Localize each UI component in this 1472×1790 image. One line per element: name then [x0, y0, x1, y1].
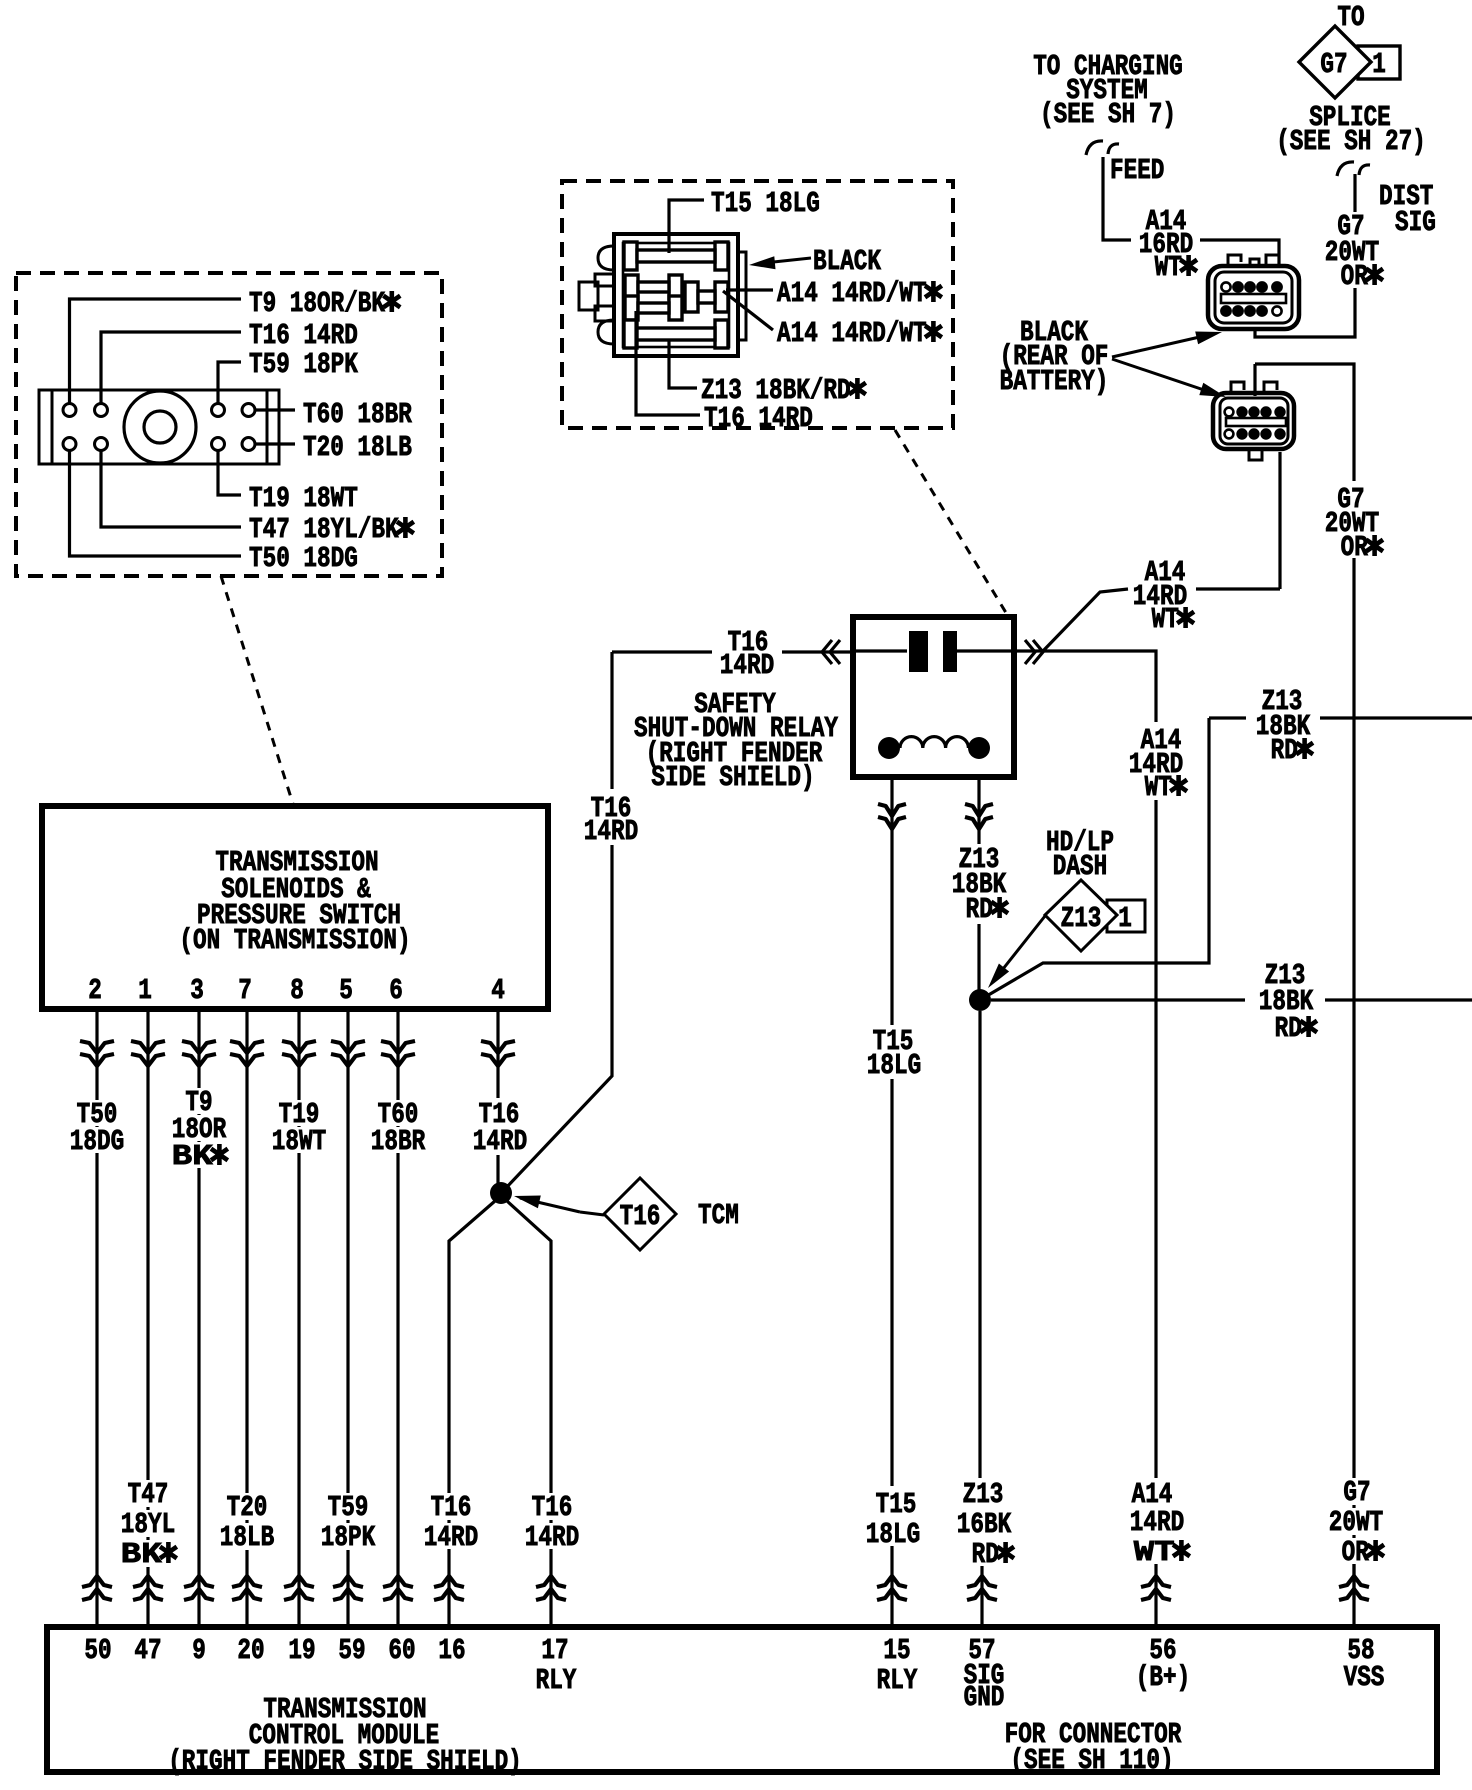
svg-text:TCM: TCM: [698, 1199, 739, 1232]
label G7 20WT OR* (bottom): [1339, 1478, 1374, 1505]
wire T15 -> TCM pin 15: [890, 1546, 893, 1627]
svg-text:(RIGHT FENDER SIDE SHIELD): (RIGHT FENDER SIDE SHIELD): [168, 1745, 522, 1778]
svg-text:16BK: 16BK: [957, 1508, 1012, 1541]
wire A14 -> TCM (mid segment): [1154, 800, 1157, 1478]
inline connector chevrons pin 4: [481, 1041, 515, 1053]
svg-text:T20 18LB: T20 18LB: [303, 431, 412, 464]
svg-text:19: 19: [288, 1634, 315, 1667]
svg-text:WT: WT: [1155, 251, 1182, 284]
svg-text:1: 1: [138, 974, 152, 1007]
wire A14 16RD -> battery connector 1: [1200, 240, 1279, 266]
wire solenoid pin x=97: [95, 1009, 98, 1627]
relay K: safety shut-down relay: [853, 617, 1014, 777]
inline connector chevrons (TCM side x=199): [184, 1576, 214, 1587]
junction dot Z13: [969, 989, 991, 1011]
wire Z13 upper cont.: [1320, 716, 1472, 719]
svg-text:20WT: 20WT: [1329, 1506, 1383, 1539]
svg-text:3: 3: [190, 974, 204, 1007]
svg-text:T9 18OR/BK: T9 18OR/BK: [249, 287, 385, 320]
svg-text:14RD: 14RD: [424, 1521, 478, 1554]
svg-text:(SEE SH 110): (SEE SH 110): [1010, 1744, 1173, 1777]
wire G7 -> battery connector 1 bottom: [1255, 288, 1355, 337]
svg-text:(B+): (B+): [1136, 1661, 1190, 1694]
svg-text:GND: GND: [964, 1681, 1005, 1714]
svg-text:WT: WT: [1152, 603, 1179, 636]
wire solenoid pin x=148: [146, 1009, 149, 1627]
wire pin->T16 label: [101, 332, 241, 403]
wire pin->T50 label: [70, 451, 242, 556]
inline connector chevrons G7: [1339, 1576, 1369, 1587]
wire T16 down to junction: [505, 845, 612, 1189]
svg-text:18PK: 18PK: [321, 1521, 376, 1554]
wire T15 mid segment: [890, 1079, 893, 1486]
inline connector chevrons (pin x=398): [381, 1041, 415, 1053]
svg-text:1: 1: [1372, 48, 1386, 81]
svg-text:RD: RD: [966, 893, 993, 926]
inline connector chevrons pin 16: [434, 1576, 464, 1587]
splice ref box 1 (Z13): [1107, 900, 1145, 932]
wire A14 bottom segment: [1154, 1564, 1157, 1627]
svg-text:T15 18LG: T15 18LG: [711, 187, 820, 220]
svg-text:RD: RD: [1275, 1012, 1302, 1045]
wire Z13 lower cont.: [1325, 998, 1472, 1001]
svg-text:59: 59: [338, 1634, 365, 1667]
svg-text:BATTERY): BATTERY): [1000, 365, 1109, 398]
wire Z13 -> TCM pin 57 (lower): [980, 1566, 983, 1627]
wire solenoid pin x=247: [245, 1009, 248, 1627]
splice ref box 1: [1358, 46, 1400, 79]
svg-text:14RD: 14RD: [584, 815, 638, 848]
svg-text:60: 60: [388, 1634, 415, 1667]
inline connector chevrons (pin x=148): [131, 1041, 165, 1053]
svg-text:17: 17: [541, 1634, 568, 1667]
svg-text:Z13: Z13: [1061, 902, 1102, 935]
inline connector chevrons (left of relay): [822, 640, 840, 664]
svg-text:15: 15: [883, 1634, 910, 1667]
svg-text:BK: BK: [121, 1538, 162, 1571]
svg-text:A14 14RD/WT: A14 14RD/WT: [777, 317, 927, 350]
svg-text:T47: T47: [128, 1478, 169, 1511]
svg-text:16: 16: [438, 1634, 465, 1667]
svg-text:47: 47: [134, 1634, 161, 1667]
wire T16 label -> relay: [782, 650, 851, 653]
leader Z13 terminal: [669, 341, 697, 388]
connector: black 8-way (rear of battery) upper: [1228, 255, 1278, 266]
wire A14 label -> conn2: [1196, 587, 1280, 590]
svg-text:(ON TRANSMISSION): (ON TRANSMISSION): [179, 924, 410, 957]
inline connector chevrons Z13: [967, 1576, 997, 1587]
svg-text:T16: T16: [620, 1200, 661, 1233]
wire T16 -> relay: [612, 650, 712, 653]
wire pin->T9 label: [70, 299, 242, 403]
connector: black 8-way (rear of battery) lower: [1231, 382, 1277, 396]
svg-text:2: 2: [88, 974, 102, 1007]
wire T16 -> TCM pin 17: [507, 1201, 551, 1627]
connector pin holes: [63, 404, 76, 417]
relay contact: [856, 649, 907, 652]
socket terminal slots: [624, 242, 637, 270]
svg-text:18LB: 18LB: [220, 1521, 274, 1554]
svg-text:SIDE SHIELD): SIDE SHIELD): [651, 761, 814, 794]
box: transmission control module: [47, 1627, 1437, 1772]
inline connector chevrons pin 17: [536, 1576, 566, 1587]
connector body: [39, 390, 279, 464]
label T16 14RD (pin16): [427, 1493, 476, 1520]
svg-text:6: 6: [389, 974, 403, 1007]
leader dashed: detail box -> solenoid box: [221, 576, 293, 804]
wire relay coil -> T15: [890, 777, 893, 1025]
svg-text:BLACK: BLACK: [813, 245, 881, 278]
box: transmission solenoids & pressure switch: [42, 806, 548, 1009]
leader T16 terminal: [636, 311, 700, 415]
wire feed -> A14 16RD: [1103, 157, 1131, 240]
svg-text:18WT: 18WT: [272, 1125, 326, 1158]
svg-text:T16: T16: [431, 1491, 472, 1524]
leader arrow BLACK: [764, 258, 811, 263]
inline connector chevrons (TCM side x=97): [82, 1576, 112, 1587]
svg-text:RLY: RLY: [877, 1664, 918, 1697]
wire G7 -> TCM pin 58: [1352, 558, 1355, 1600]
wire Z13 upper to right edge: [1209, 716, 1246, 719]
inline connector chevrons (pin x=199): [182, 1041, 216, 1053]
svg-text:14RD: 14RD: [473, 1125, 527, 1158]
inline connector chevrons (pin x=97): [80, 1041, 114, 1053]
inline connector chevrons (TCM side x=247): [232, 1576, 262, 1587]
leader arrow Z13 splice -> junction: [999, 916, 1045, 974]
wire pin->T20 label: [256, 442, 295, 445]
svg-text:BK: BK: [172, 1140, 213, 1173]
svg-text:20: 20: [237, 1634, 264, 1667]
relay coil: [878, 737, 900, 759]
svg-text:T19 18WT: T19 18WT: [249, 482, 358, 515]
splice symbol T16 diamond (TCM): [604, 1178, 676, 1250]
relay socket body: [614, 234, 738, 356]
wire solenoid pin 4 (T16): [496, 1009, 499, 1098]
wire battery conn2 top: [1253, 364, 1256, 396]
wire pin->T60 label: [256, 408, 295, 411]
inline connector chevrons A14: [1141, 1576, 1171, 1587]
inline connector chevrons (TCM side x=398): [383, 1576, 413, 1587]
off-page hook (splice): [1337, 162, 1370, 176]
inline connector chevrons (TCM side x=348): [333, 1576, 363, 1587]
detail box: safety shut-down relay socket (dashed): [562, 181, 953, 428]
inline connector chevrons (right of relay): [1025, 640, 1043, 664]
svg-text:14RD: 14RD: [1130, 1506, 1184, 1539]
wire G7 from splice: [1353, 174, 1356, 212]
inline connector chevrons (TCM side x=299): [284, 1576, 314, 1587]
leader T15 terminal: [669, 200, 704, 253]
svg-text:WT: WT: [1145, 771, 1172, 804]
svg-text:T15: T15: [876, 1488, 917, 1521]
svg-text:T50 18DG: T50 18DG: [249, 542, 358, 575]
svg-text:5: 5: [339, 974, 353, 1007]
leader A14 terminal 1: [726, 288, 773, 291]
wire solenoid pin x=348: [346, 1009, 349, 1627]
wire pin->T47 label: [101, 451, 241, 527]
svg-text:50: 50: [84, 1634, 111, 1667]
detail box: transmission solenoid connector (dashed): [16, 273, 442, 576]
off-page hook (feed): [1086, 141, 1119, 155]
svg-text:(SEE SH 7): (SEE SH 7): [1040, 98, 1176, 131]
svg-text:FEED: FEED: [1110, 154, 1164, 187]
label T16 14RD (pin17): [528, 1493, 577, 1520]
svg-text:14RD: 14RD: [720, 649, 774, 682]
svg-text:14RD: 14RD: [525, 1521, 579, 1554]
svg-text:TO: TO: [1337, 1, 1364, 34]
svg-text:RD: RD: [1271, 734, 1298, 767]
svg-text:Z13: Z13: [963, 1478, 1004, 1511]
wire G7 bottom segment: [1352, 1564, 1355, 1627]
inline connector chevrons (pin x=348): [331, 1041, 365, 1053]
leader dashed: detail box -> relay: [895, 430, 1008, 616]
splice symbol Z13 diamond: [1045, 880, 1117, 951]
svg-text:T20: T20: [227, 1491, 268, 1524]
wire A14 diagonal up: [1043, 589, 1128, 651]
svg-text:T59: T59: [328, 1491, 369, 1524]
svg-text:T16 14RD: T16 14RD: [704, 402, 813, 435]
junction dot T16: [490, 1182, 512, 1204]
wire pin->T59 label: [218, 362, 241, 403]
svg-text:T59 18PK: T59 18PK: [249, 348, 358, 381]
wire Z13 -> junction dot: [977, 924, 980, 990]
svg-text:18LG: 18LG: [867, 1049, 921, 1082]
inline connector chevrons (relay T15 out): [878, 804, 906, 816]
svg-text:8: 8: [290, 974, 304, 1007]
svg-text:18DG: 18DG: [70, 1125, 124, 1158]
svg-text:1: 1: [1118, 902, 1132, 935]
inline connector chevrons (relay Z13 out): [965, 804, 993, 816]
inline connector chevrons (pin x=247): [230, 1041, 264, 1053]
wire G7 conn2 -> down: [1255, 364, 1354, 481]
svg-text:(SEE SH 27): (SEE SH 27): [1276, 125, 1426, 158]
wire pin->T19 label: [218, 451, 241, 495]
svg-text:DASH: DASH: [1053, 850, 1107, 883]
svg-text:RLY: RLY: [536, 1664, 577, 1697]
wire Z13 junction to right edge: [991, 998, 1245, 1001]
leader arrows to battery connectors: [1112, 336, 1204, 357]
wire T16 -> TCM pin 16: [449, 1201, 495, 1627]
svg-text:T60 18BR: T60 18BR: [303, 398, 412, 431]
svg-text:WT: WT: [1134, 1536, 1175, 1569]
svg-text:T16: T16: [532, 1491, 573, 1524]
wire conn2 -> A14 14RD: [1278, 452, 1281, 589]
svg-text:9: 9: [192, 1634, 206, 1667]
leader A14 terminal 2: [723, 291, 773, 330]
svg-text:18BR: 18BR: [371, 1125, 426, 1158]
wire solenoid pin x=398: [396, 1009, 399, 1627]
svg-text:VSS: VSS: [1344, 1661, 1385, 1694]
wire T16 down: [610, 652, 613, 789]
svg-text:A14 14RD/WT: A14 14RD/WT: [777, 277, 927, 310]
wire solenoid pin x=299: [297, 1009, 300, 1627]
connector center hub: [124, 391, 196, 463]
svg-text:7: 7: [238, 974, 252, 1007]
wire Z13 upper -> junction: [985, 718, 1209, 997]
inline connector chevrons T15: [877, 1576, 907, 1587]
svg-text:G7: G7: [1320, 48, 1347, 81]
splice symbol G7 diamond: [1299, 26, 1371, 98]
wire Z13 -> TCM pin 57: [978, 1011, 981, 1478]
wire solenoid pin x=199: [197, 1009, 200, 1627]
svg-text:RD: RD: [972, 1538, 999, 1571]
svg-text:4: 4: [491, 974, 505, 1007]
leader arrow T16 splice -> junction: [580, 1212, 604, 1215]
svg-text:18YL: 18YL: [121, 1508, 175, 1541]
inline connector chevrons (TCM side x=148): [133, 1576, 163, 1587]
inline connector chevrons (pin x=299): [282, 1041, 316, 1053]
wire A14 -> TCM pin 56: [1014, 651, 1156, 722]
wire relay coil -> Z13: [977, 777, 980, 844]
svg-text:G7: G7: [1343, 1476, 1370, 1509]
svg-text:SIG: SIG: [1395, 206, 1436, 239]
wire T16 pin4 -> junction: [496, 1155, 499, 1188]
